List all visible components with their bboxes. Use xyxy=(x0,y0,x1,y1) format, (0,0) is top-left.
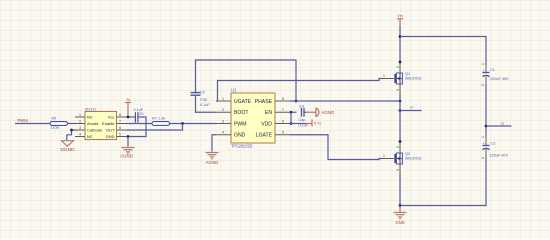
svg-text:Vin: Vin xyxy=(397,14,402,18)
opto pin 7 xyxy=(117,123,127,125)
wire LGATE to Q2 gate xyxy=(290,135,382,160)
svg-text:O: O xyxy=(501,121,504,126)
svg-text:8: 8 xyxy=(282,97,284,101)
svg-text:1: 1 xyxy=(383,74,385,78)
wire R7 to U1 PWM xyxy=(170,123,217,125)
svg-text:220uF 40V: 220uF 40V xyxy=(490,77,509,81)
svg-text:2: 2 xyxy=(222,108,224,112)
ground AGND (opto) xyxy=(120,148,135,159)
svg-text:DGND: DGND xyxy=(60,147,75,153)
wire Vcc row xyxy=(127,116,135,118)
wire Q2 source to GND rail xyxy=(399,174,401,206)
wire EN row xyxy=(290,111,297,113)
wire C5 to GND row xyxy=(127,117,147,137)
svg-text:Cap: Cap xyxy=(200,98,207,102)
wire C3 to GND rail xyxy=(400,157,486,206)
wire C2 to top loop and PHASE xyxy=(196,60,297,101)
svg-text:BsB012n03x3: BsB012n03x3 xyxy=(405,157,422,161)
svg-text:3: 3 xyxy=(396,169,400,171)
svg-text:5: 5 xyxy=(119,133,121,137)
svg-text:6: 6 xyxy=(119,126,121,130)
svg-text:Enable: Enable xyxy=(102,121,115,126)
wire PHASE to switch node xyxy=(290,100,400,102)
svg-text:Anode: Anode xyxy=(87,121,99,126)
svg-text:220uF 40V: 220uF 40V xyxy=(490,153,509,157)
svg-text:Q1: Q1 xyxy=(405,72,410,76)
svg-text:GND: GND xyxy=(234,133,246,139)
opto pin 1 xyxy=(75,116,85,118)
junction GND xyxy=(399,204,402,207)
wire VDD row xyxy=(290,123,306,125)
capacitor C3 220uF xyxy=(481,136,509,159)
junction O node xyxy=(485,125,488,128)
U1 pin 5 xyxy=(275,134,290,136)
wire Vin down to Q1 drain xyxy=(399,26,401,62)
svg-text:Vcc: Vcc xyxy=(108,115,115,120)
opto pin 6 xyxy=(117,129,127,131)
wire GND pin to AGND xyxy=(127,137,129,147)
svg-text:0.1uF: 0.1uF xyxy=(200,103,210,107)
junction OUT/R7 xyxy=(181,122,184,125)
svg-text:PWM: PWM xyxy=(18,118,29,123)
svg-text:7: 7 xyxy=(119,120,121,124)
svg-text:C1: C1 xyxy=(490,68,495,72)
svg-text:8: 8 xyxy=(119,113,121,117)
svg-text:AGND: AGND xyxy=(322,110,335,115)
svg-text:BOOT: BOOT xyxy=(234,110,248,116)
capacitor C4 xyxy=(299,104,309,127)
opto pin 5 xyxy=(117,136,127,138)
U1 pin 1 xyxy=(216,100,231,102)
svg-text:EN: EN xyxy=(265,110,272,116)
wire OUT row xyxy=(127,124,183,131)
svg-text:3: 3 xyxy=(79,126,81,130)
wire C1 down to O node xyxy=(485,84,487,138)
svg-text:1: 1 xyxy=(481,136,485,138)
svg-text:3: 3 xyxy=(222,119,224,123)
opto pin 2 xyxy=(75,123,85,125)
svg-text:C4: C4 xyxy=(299,104,304,108)
capacitor C1 220uF xyxy=(481,63,509,86)
transistor Q2 xyxy=(382,140,422,174)
opto pin 8 xyxy=(117,116,127,118)
junction VDD xyxy=(290,122,293,125)
optocoupler U2 6N137 body xyxy=(85,106,117,139)
svg-text:1: 1 xyxy=(79,113,81,117)
svg-text:2: 2 xyxy=(396,66,400,68)
capacitor C5 0.1uF xyxy=(134,108,144,123)
svg-text:2: 2 xyxy=(79,120,81,124)
U1 pin 3 xyxy=(216,123,231,125)
svg-text:6: 6 xyxy=(282,119,284,123)
node O stub xyxy=(486,125,512,127)
svg-text:3: 3 xyxy=(396,89,400,91)
svg-text:LGATE: LGATE xyxy=(256,133,273,139)
ground DGND xyxy=(60,141,75,154)
opto pin 4 xyxy=(75,136,85,138)
svg-text:C2: C2 xyxy=(200,91,205,95)
power port 5v xyxy=(125,98,131,117)
opto pin 3 xyxy=(75,129,85,131)
svg-text:NC: NC xyxy=(87,134,93,139)
wire Q1 source to P node xyxy=(399,94,401,142)
driver U1 TPS28225D body xyxy=(231,87,275,148)
svg-text:2: 2 xyxy=(481,157,485,159)
svg-text:OUT: OUT xyxy=(106,128,115,133)
wire U1 GND to AGND xyxy=(212,135,216,152)
resistor R5 xyxy=(50,117,68,131)
svg-text:U1: U1 xyxy=(231,87,237,92)
wire EN-VDD tie xyxy=(290,112,292,123)
svg-text:2: 2 xyxy=(396,146,400,148)
svg-text:GND: GND xyxy=(395,220,404,225)
node P stub xyxy=(400,110,422,112)
svg-text:1: 1 xyxy=(383,154,385,158)
svg-text:6N137: 6N137 xyxy=(85,106,97,111)
svg-text:VDD: VDD xyxy=(261,121,272,127)
junction GND/AGND xyxy=(127,135,130,138)
power port AGND (arrow) xyxy=(307,108,335,118)
junction Vin rail xyxy=(399,35,402,38)
svg-text:1: 1 xyxy=(481,63,485,65)
svg-text:PHASE: PHASE xyxy=(255,99,273,105)
svg-text:2: 2 xyxy=(481,84,485,86)
wire top rail to C1 xyxy=(400,37,486,66)
wire PWM input xyxy=(15,123,50,125)
power port 5.7v xyxy=(306,119,321,126)
svg-text:PWM: PWM xyxy=(234,121,246,127)
svg-text:4: 4 xyxy=(79,133,81,137)
U1 pin 6 xyxy=(275,123,290,125)
svg-text:5.7v: 5.7v xyxy=(314,121,321,125)
svg-text:AGND: AGND xyxy=(205,160,219,165)
junction node P xyxy=(399,109,402,112)
svg-text:C5: C5 xyxy=(139,112,144,116)
svg-text:R5: R5 xyxy=(52,117,57,121)
U1 pin 7 xyxy=(275,111,290,113)
svg-text:TPS28225D: TPS28225D xyxy=(231,144,253,149)
svg-text:Cathode: Cathode xyxy=(87,128,103,133)
wire enable row to R7 xyxy=(127,123,153,125)
svg-text:Q2: Q2 xyxy=(405,152,410,156)
svg-text:UGATE: UGATE xyxy=(234,99,252,105)
junction EN xyxy=(290,111,293,114)
svg-text:1: 1 xyxy=(222,97,224,101)
wire cathode to DGND xyxy=(67,130,76,140)
ground GND xyxy=(394,206,407,225)
svg-text:5: 5 xyxy=(282,131,284,135)
junction PHASE xyxy=(295,100,298,103)
svg-text:Cap: Cap xyxy=(299,118,306,122)
svg-text:BsB012n03x3: BsB012n03x3 xyxy=(405,77,422,81)
svg-text:7: 7 xyxy=(282,108,284,112)
junction Vcc/5v xyxy=(127,116,130,119)
transistor Q1 xyxy=(382,61,422,94)
ground AGND (U1) xyxy=(205,153,219,165)
power port Vin xyxy=(397,14,403,26)
svg-text:GND: GND xyxy=(106,134,115,139)
resistor R7 1.3k xyxy=(152,117,170,126)
capacitor C2 bootstrap xyxy=(191,91,211,108)
U1 pin 2 xyxy=(216,111,231,113)
svg-text:NC: NC xyxy=(87,115,93,120)
wire BOOT to C2 xyxy=(196,96,217,112)
wire C4 to AGND port xyxy=(304,111,307,113)
svg-text:AGND: AGND xyxy=(120,154,134,159)
svg-text:0.1uF: 0.1uF xyxy=(299,124,309,128)
U1 pin 8 xyxy=(275,100,290,102)
svg-text:R7 1.3k: R7 1.3k xyxy=(152,117,165,121)
junction cathode xyxy=(70,129,73,132)
wire UGATE to Q1 gate xyxy=(216,79,382,102)
wire R5 to opto anode xyxy=(68,123,77,125)
svg-text:470R: 470R xyxy=(51,126,60,130)
svg-text:4: 4 xyxy=(222,131,224,135)
svg-text:C3: C3 xyxy=(491,141,496,145)
U1 pin 4 xyxy=(216,134,231,136)
junction switch node xyxy=(399,100,402,103)
svg-text:5v: 5v xyxy=(127,98,131,102)
